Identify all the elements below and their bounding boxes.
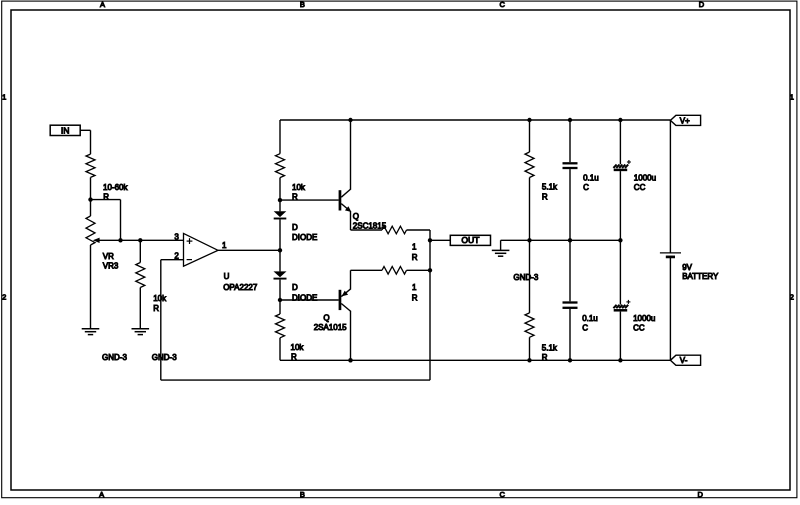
junction Q1 collector rail [348,118,352,122]
svg-text:1: 1 [790,92,794,101]
resistor R 5.1k upper [525,152,558,201]
pin 1 label [222,241,227,250]
junction mid rail 1000u [618,238,622,242]
svg-text:A: A [99,490,104,499]
node IN connector [50,125,80,135]
junction mid rail 5.1k [527,238,531,242]
svg-text:DIODE: DIODE [292,293,317,302]
svg-text:C: C [499,490,505,499]
svg-text:10-60k: 10-60k [103,183,128,192]
junction top rail 5.1k [527,118,531,122]
wire 1000u to mid rail [619,171,621,240]
svg-text:Q: Q [353,212,359,221]
wire mid rail to 5.1k lower [529,240,531,313]
pin 2 label [174,252,179,261]
junction input divider node [88,197,92,201]
wire Q2 collector to bottom rail [350,311,352,360]
capacitor C 0.1u lower [563,303,598,333]
transistor Q 2SA1015 [314,289,351,333]
svg-text:3: 3 [174,232,179,241]
svg-text:R: R [542,192,548,201]
svg-text:C: C [499,0,505,9]
transistor Q 2SC1815 [339,189,387,231]
wire 0.1u to mid rail [569,169,571,240]
svg-text:5.1k: 5.1k [542,343,558,352]
wire to diode D2 [279,250,281,271]
node OUT connector [450,235,490,245]
svg-text:D: D [292,283,298,292]
svg-text:V-: V- [680,356,688,365]
wire top rail [280,119,670,121]
ground GND-3 at OUT [492,240,539,282]
svg-text:C: C [582,324,588,333]
junction Q2 base node [278,298,282,302]
wire wiper to op-amp pin 3 [99,239,183,241]
svg-text:R: R [542,353,548,362]
junction 10k tap [138,238,142,242]
potentiometer VR3 [86,216,119,271]
junction bottom rail 1000u [618,358,622,362]
wire op-amp output pin 1 [218,249,280,251]
op-amp U OPA2227 [184,233,258,292]
junction op-amp output [278,248,282,252]
svg-text:OUT: OUT [461,235,480,245]
wire tap to 10k [139,240,141,262]
wire 1R to output node [407,229,431,231]
junction wiper link [118,238,122,242]
junction OUT tap [428,238,432,242]
wire 1000u lower to bottom rail [619,312,621,361]
wire 10k to bottom rail [279,338,281,361]
svg-text:C: C [583,183,589,192]
svg-text:1000u: 1000u [634,174,656,183]
svg-text:IN: IN [61,126,70,136]
junction bottom rail Q2 [348,358,352,362]
svg-text:GND-3: GND-3 [102,353,127,362]
wire to Q2 base [280,299,339,301]
resistor R 1 upper [382,226,418,262]
svg-text:R: R [153,304,159,313]
wire 0.1u lower to bottom rail [569,309,571,360]
svg-text:9V: 9V [682,263,692,272]
svg-text:1: 1 [222,241,227,250]
wire 10k to ground [139,288,141,329]
node V+ flag [670,115,700,125]
junction top rail 0.1u [568,118,572,122]
svg-text:1: 1 [412,283,417,292]
svg-text:A: A [100,0,105,9]
svg-text:10k: 10k [292,183,306,192]
svg-text:10k: 10k [291,343,305,352]
junction bottom rail 5.1k [527,358,531,362]
wire 1R lower to output node [407,269,431,271]
svg-text:BATTERY: BATTERY [682,272,719,281]
svg-text:0.1u: 0.1u [583,174,599,183]
svg-text:2: 2 [2,292,6,301]
svg-text:R: R [412,253,418,262]
wire R to VR3 top [90,177,92,216]
svg-text:V+: V+ [680,116,690,125]
wire feedback bottom rail [161,379,430,381]
wire op-amp pin 2 feedback [161,260,184,380]
resistor R 10k bias upper [276,154,306,202]
wire bottom rail [280,359,670,361]
resistor R 10-60k [86,154,128,202]
wire D1 to output node [279,220,281,251]
svg-text:R: R [103,193,109,202]
svg-text:CC: CC [633,324,645,333]
svg-text:VR: VR [103,252,114,261]
svg-text:1000u: 1000u [633,314,655,323]
wire mid rail [501,239,621,241]
wire output to OUT [430,239,450,241]
svg-text:U: U [224,272,230,281]
wire rail to 1000u upper [619,120,621,164]
wire Q1 collector to rail [350,120,352,189]
wire rail to 10k upper [279,120,281,154]
wire battery to V- [669,257,671,360]
wire VR3 bottom to ground [90,245,92,329]
resistor R 10k to ground [136,263,167,314]
capacitor C 0.1u upper [563,163,599,192]
node V- flag [670,355,700,365]
svg-text:2: 2 [790,292,794,301]
diode D DIODE upper [274,211,318,242]
junction Q1 base node [278,198,282,202]
svg-text:D: D [699,0,705,9]
wire to Q1 base [280,199,339,201]
svg-text:R: R [412,294,418,303]
svg-text:GND-3: GND-3 [513,273,538,282]
svg-text:Q: Q [323,314,329,323]
wire 5.1k lower to bottom rail [529,337,531,360]
svg-text:D: D [697,490,703,499]
ground GND-3 mid [132,329,178,362]
wire mid rail to 0.1u lower [569,240,571,301]
svg-text:1: 1 [412,243,417,252]
wire 10k to diode D1 [279,178,281,212]
svg-text:D: D [292,223,298,232]
wire rail to 5.1k upper [529,120,531,152]
resistor R 1 lower [382,267,418,303]
junction Q2 collector rail [348,358,352,362]
svg-text:DIODE: DIODE [292,233,317,242]
battery 9V [660,253,719,281]
junction bottom rail 0.1u [568,358,572,362]
wire 5.1k to mid rail [529,178,531,241]
wire Q1 emitter [351,211,383,230]
wire output node column [429,230,431,380]
wire junction to wiper link [91,200,121,241]
ground GND-3 left [82,329,128,362]
junction top rail 1000u [618,118,622,122]
svg-text:VR3: VR3 [103,262,119,271]
junction lower 1R node [428,268,432,272]
wire Q2 emitter [351,270,383,289]
svg-text:0.1u: 0.1u [582,314,598,323]
capacitor CC 1000u lower [613,300,655,333]
svg-text:5.1k: 5.1k [542,183,558,192]
wire mid rail to 1000u lower [619,240,621,304]
pin 3 label [174,232,179,241]
svg-text:CC: CC [634,183,646,192]
svg-text:OPA2227: OPA2227 [223,283,258,292]
svg-text:B: B [300,0,305,9]
svg-text:GND-3: GND-3 [152,353,177,362]
diode D DIODE lower [274,271,318,302]
capacitor CC 1000u upper [613,160,656,192]
wire D2 to 10k lower [279,280,281,314]
svg-text:2SA1015: 2SA1015 [314,323,347,332]
resistor R 5.1k lower [525,313,558,362]
resistor R 10k bias lower [276,314,305,362]
wire V+ to battery [669,120,671,253]
svg-text:1: 1 [2,92,6,101]
junction mid rail 0.1u [568,238,572,242]
wire rail to 0.1u upper [569,120,571,162]
svg-text:B: B [300,490,305,499]
wire IN to R input [80,130,90,154]
